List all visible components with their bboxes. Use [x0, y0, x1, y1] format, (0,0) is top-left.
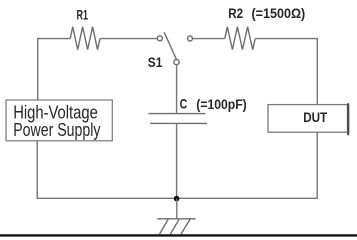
wire: HV supply bottom lead to bottom rail — [36, 141, 38, 199]
ground symbol: hatch stroke 2 — [170, 219, 179, 234]
svg-text:S1: S1 — [148, 55, 163, 70]
DUT box right edge (heavier stroke) — [347, 103, 349, 135]
wire: top-left horizontal rail to R1 — [37, 38, 70, 40]
resistor R2 (zigzag) — [225, 27, 255, 50]
wire: top-right corner down to DUT box — [316, 38, 318, 105]
svg-text:DUT: DUT — [303, 110, 328, 125]
wire: capacitor C bottom to bottom rail — [176, 123, 178, 199]
svg-text:R2: R2 — [228, 5, 243, 21]
switch S1 blade (open, diagonal arm) — [164, 32, 176, 59]
ground symbol: horizontal bar — [157, 218, 195, 220]
svg-text:C: C — [180, 97, 188, 112]
wire: S1 pole down to capacitor C — [176, 65, 178, 114]
svg-text:R1: R1 — [77, 8, 89, 23]
svg-text:Power Supply: Power Supply — [13, 119, 101, 140]
switch S1 right contact (open circle) — [188, 36, 193, 41]
svg-text:(=100pF): (=100pF) — [196, 96, 246, 112]
wire: bottom horizontal rail — [37, 197, 318, 199]
wire: HV supply positive lead (vertical, box top to top rail) — [37, 38, 39, 100]
wire: junction down to ground — [176, 199, 178, 219]
DUT box — [268, 105, 348, 133]
wire: R1 to switch S1 left contact — [100, 38, 157, 40]
capacitor C bottom plate — [150, 122, 207, 124]
wire: DUT box bottom to bottom rail — [316, 132, 318, 198]
High-Voltage Power Supply box — [6, 100, 112, 141]
resistor R1 (zigzag) — [70, 27, 100, 50]
switch S1 pole contact (bottom circle) — [174, 60, 179, 65]
switch S1 left contact (open circle) — [157, 36, 162, 41]
junction node (filled dot) — [174, 196, 180, 202]
svg-text:(=1500Ω): (=1500Ω) — [252, 5, 306, 21]
capacitor C top plate — [149, 113, 206, 115]
wire: R2 to top-right corner — [255, 38, 318, 40]
ground symbol: hatch stroke 1 — [160, 219, 169, 234]
wire: S1 right contact to R2 — [193, 38, 225, 40]
ground symbol: hatch stroke 3 — [181, 219, 190, 234]
bottom border rule — [0, 234, 357, 236]
